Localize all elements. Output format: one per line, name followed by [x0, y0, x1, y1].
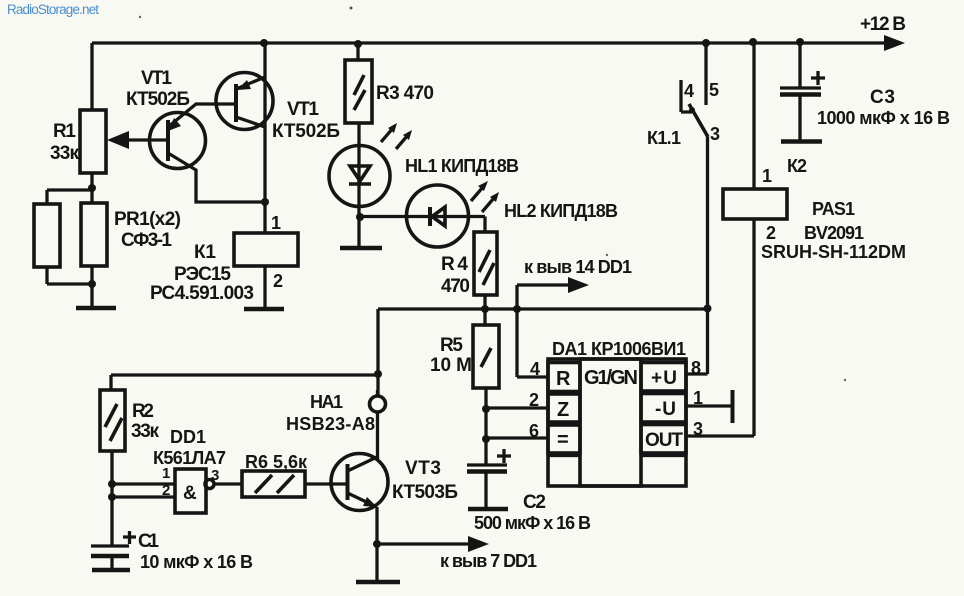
resistor R1 potentiometer body [80, 110, 106, 173]
wire mid rail corner down to HA1 [376, 309, 379, 396]
ground under C2 [468, 507, 508, 512]
DA1 -U pin box [641, 394, 686, 423]
wire DD1 output to R6 [214, 482, 242, 485]
capacitor C2 top plate [467, 463, 507, 466]
node R2 rail junction [374, 370, 382, 378]
inverter bubble DD1 output [205, 480, 214, 489]
node VT3 emitter junction [373, 540, 381, 548]
svg-text:РС4.591.003: РС4.591.003 [150, 283, 254, 304]
resistor R6 body [242, 471, 305, 497]
wire C3 to ground [798, 96, 801, 141]
transistor VT1 first, circle [150, 113, 206, 169]
svg-text:4: 4 [684, 81, 694, 101]
transistor VT3 circle [331, 454, 388, 511]
wire top rail to C3 [798, 42, 801, 87]
photoresistor PR1 right body [81, 203, 107, 266]
wire R1 wiper [126, 138, 168, 141]
light arrow HL2 a [471, 187, 483, 201]
wire R1 bottom to PR1 pair [47, 173, 92, 204]
DA1 OUT pin box [641, 425, 686, 454]
node HL1 cathode junction [356, 213, 364, 221]
wire mid rail to R5 top [483, 309, 486, 325]
svg-text:3: 3 [710, 124, 720, 144]
svg-text:1000 мкФ х 16 В: 1000 мкФ х 16 В [817, 108, 950, 128]
DA1 Z pin box [548, 394, 580, 422]
arrowhead VT3 emitter [363, 497, 377, 507]
wire +12V top rail [92, 41, 886, 44]
node top rail at K2 [749, 38, 757, 46]
svg-text:НА1: НА1 [310, 392, 343, 412]
DA1 lower dividers [548, 454, 686, 457]
wire VT3 emitter down to ground [375, 507, 378, 582]
svg-text:КТ502Б: КТ502Б [272, 121, 340, 142]
logic gate DD1 body [175, 469, 206, 513]
wire to DA1 pin6 [486, 436, 548, 439]
speck [844, 379, 846, 381]
node DD1 pin2 junction [108, 493, 116, 501]
svg-text:470: 470 [441, 276, 470, 297]
capacitor C2 bottom plate [467, 469, 507, 474]
wire to DA1 pin2 [486, 406, 548, 409]
transistor VT1 second, base bar [234, 84, 238, 122]
wire VT3 collector diagonal [348, 457, 378, 471]
svg-text:&: & [183, 483, 197, 504]
svg-text:+U: +U [651, 368, 677, 389]
svg-text:R1: R1 [53, 121, 76, 142]
speck [606, 254, 608, 256]
svg-text:1: 1 [271, 213, 281, 233]
svg-text:2: 2 [273, 271, 283, 291]
wire mid rail [378, 307, 708, 310]
svg-text:2: 2 [766, 223, 776, 243]
svg-text:4: 4 [530, 359, 540, 379]
svg-text:VT1: VT1 [141, 68, 172, 89]
wire VT1 second collector diagonal [236, 117, 265, 127]
svg-text:С2: С2 [523, 492, 546, 513]
transistor VT1 first, base bar [166, 120, 170, 161]
svg-text:33к: 33к [131, 421, 159, 442]
wire VT1 first emitter to VT1 second base [168, 104, 236, 127]
svg-text:К2: К2 [787, 156, 807, 176]
wire rail through VT1 second down to relay K1 [263, 43, 266, 233]
LED HL1 diode triangle [350, 166, 370, 181]
capacitor C3 top plate [780, 86, 821, 89]
switch blade K1.1 [689, 104, 708, 137]
svg-text:R6 5,6к: R6 5,6к [245, 452, 308, 472]
photoresistor PR1 left body [34, 204, 60, 267]
wire C1 to ground [110, 558, 113, 568]
arrowhead to pin 14 DD1 [568, 277, 589, 293]
node rail at VT1 second [260, 39, 268, 47]
wire VT3 emitter diagonal [348, 493, 378, 507]
node top rail at C3 [796, 38, 804, 46]
svg-text:VT3: VT3 [405, 458, 441, 479]
slashes inside R3 [354, 75, 365, 110]
resistor R3 body [345, 60, 372, 123]
svg-text:500 мкФ х 16 В: 500 мкФ х 16 В [474, 513, 591, 533]
wire R6 to VT3 base [305, 482, 347, 485]
svg-text:R4: R4 [441, 254, 468, 275]
svg-text:G1/GN: G1/GN [584, 367, 638, 389]
resistor R2 body [100, 390, 125, 451]
arrowhead VT1 second emitter [237, 80, 251, 90]
wire DA1 pin3 to relay K2 [686, 219, 754, 436]
ground under C3 [781, 139, 822, 144]
node mid rail right end [704, 305, 712, 313]
timer IC DA1 outer box [548, 359, 686, 486]
arrowhead VT1 first emitter [168, 118, 181, 131]
wire to DA1 pin4 [517, 309, 548, 377]
svg-text:BV2091: BV2091 [804, 223, 864, 243]
DA1 +U pin box [641, 363, 686, 392]
arrowhead R1 wiper [107, 131, 129, 149]
LED HL2 diode triangle [432, 207, 445, 226]
svg-text:2: 2 [529, 390, 539, 410]
wire C2 to ground [484, 473, 487, 509]
relay K2 coil body [723, 189, 787, 219]
svg-text:КТ503Б: КТ503Б [392, 482, 458, 503]
svg-text:РЭС15: РЭС15 [174, 264, 231, 285]
svg-text:3: 3 [211, 467, 219, 484]
svg-text:HSB23-A8: HSB23-A8 [286, 414, 375, 434]
wire R2 bottom to C1 [110, 451, 113, 546]
node DD1 pin1 junction [108, 480, 116, 488]
node collectors junction [261, 198, 269, 206]
light arrow HL1 b [396, 135, 408, 149]
arrowhead of +12V rail [884, 35, 905, 51]
light arrow HL1 a [381, 128, 393, 142]
node R1 bottom junction [88, 184, 96, 192]
node PR1 bottom junction [88, 280, 96, 288]
wire R4 bottom to mid rail [483, 295, 486, 310]
node R4 bottom on mid rail [481, 305, 489, 313]
wire DD1 input pins [112, 484, 175, 497]
svg-text:DD1: DD1 [170, 427, 206, 447]
wire K1.1 pin3 down to mid rail [706, 137, 709, 309]
svg-text:2: 2 [162, 482, 170, 499]
svg-text:1: 1 [762, 166, 772, 186]
svg-text:к выв 14 DD1: к выв 14 DD1 [524, 257, 632, 277]
wire rail to R3 top [356, 43, 359, 60]
svg-text:5: 5 [709, 80, 719, 100]
slashes inside R2 [105, 404, 122, 441]
svg-text:10 мкФ х 16 В: 10 мкФ х 16 В [140, 552, 253, 572]
transistor VT1 second, circle [216, 73, 273, 130]
resistor R4 body [474, 232, 497, 295]
arrowhead to pin 7 DD1 [468, 536, 489, 552]
svg-text:PAS1: PAS1 [812, 199, 855, 219]
node rail at R3 [354, 40, 362, 48]
speck [350, 7, 353, 10]
plus sign of C1 [123, 531, 136, 544]
relay K1 coil body [234, 233, 298, 266]
svg-text:R5: R5 [440, 335, 463, 356]
capacitor C3 bottom plate [780, 92, 821, 97]
wire switch K1.1 pin5 stub [704, 43, 707, 105]
slashes inside R4 [479, 250, 494, 285]
capacitor C1 top plate [91, 544, 129, 547]
svg-text:R2: R2 [132, 401, 154, 422]
slash inside R5 [481, 348, 491, 367]
node top rail at K1.1 [702, 39, 710, 47]
wire R2 top rail [111, 375, 378, 390]
wire switch K1.1 pin4 stub [681, 80, 692, 112]
svg-text:СФ3-1: СФ3-1 [121, 230, 172, 251]
resistor R5 body [473, 325, 499, 388]
wire PR1 bottoms join [47, 266, 92, 308]
ground under K1 [244, 307, 284, 312]
wire rail to R1 top [90, 43, 93, 110]
svg-text:PR1(x2): PR1(x2) [114, 209, 181, 230]
svg-text:DA1 КР1006ВИ1: DA1 КР1006ВИ1 [552, 339, 686, 359]
transistor VT3 base bar [346, 464, 350, 500]
LED HL2 circle [407, 185, 469, 247]
svg-text:К1.1: К1.1 [647, 128, 681, 148]
svg-text:R: R [556, 368, 571, 390]
DA1 R pin box [548, 363, 580, 392]
svg-text:RadioStorage.net: RadioStorage.net [7, 2, 99, 17]
capacitor C1 bottom plate [91, 554, 129, 559]
LED HL1 cathode bar [349, 182, 371, 186]
DA1 middle section [580, 359, 641, 486]
wire VT1 first collector down and right [168, 153, 265, 202]
svg-text:VT1: VT1 [287, 99, 319, 120]
svg-text:SRUH-SH-112DM: SRUH-SH-112DM [761, 242, 906, 262]
ground under PR1 [76, 306, 116, 311]
wire VT1 second emitter diagonal [236, 77, 265, 89]
svg-text:HL2 КИПД18В: HL2 КИПД18В [504, 201, 618, 221]
contact blob K1.1 [689, 107, 695, 113]
svg-text:К561ЛА7: К561ЛА7 [153, 448, 226, 468]
svg-text:К1: К1 [194, 242, 216, 263]
DA1 comparator pin box [548, 425, 580, 453]
svg-text:33к: 33к [50, 143, 79, 164]
LED HL2 cathode bar [428, 207, 432, 226]
wire HA1 to VT3 collector [376, 390, 379, 459]
buzzer HA1 circle [370, 396, 386, 412]
wire to pin 14 DD1 [517, 285, 570, 309]
svg-text:=: = [557, 429, 569, 451]
wire HL1 to HL2 to R4 top [360, 217, 485, 233]
svg-text:6: 6 [529, 421, 539, 441]
wire K1 pin2 to ground [263, 266, 266, 309]
svg-text:Z: Z [557, 399, 569, 421]
terminal bar at DA1 pin1 [731, 390, 735, 423]
wire R5 bottom to C2 [484, 388, 487, 464]
svg-text:OUT: OUT [645, 430, 683, 451]
svg-text:+12 В: +12 В [860, 14, 906, 35]
ground under HL1 [340, 246, 382, 251]
svg-text:КТ502Б: КТ502Б [126, 89, 190, 110]
ground under C1 [92, 568, 130, 573]
ground under VT3 [356, 580, 400, 585]
svg-text:С3: С3 [870, 87, 895, 108]
slashes inside R6 [255, 475, 294, 493]
light arrow HL2 b [482, 198, 494, 212]
LED HL1 circle [329, 146, 390, 207]
wire DA1 pin1 to common terminal [686, 404, 732, 407]
svg-text:HL1 КИПД18В: HL1 КИПД18В [405, 156, 519, 176]
node DA1 pin6 junction [482, 435, 490, 443]
svg-text:-U: -U [655, 399, 676, 420]
plus sign of C3 [811, 71, 825, 85]
wire K2 pin1 to top rail [752, 42, 755, 189]
svg-text:R3 470: R3 470 [376, 83, 434, 104]
wire DA1 pin8 up to mid rail [686, 309, 708, 374]
svg-text:С1: С1 [138, 531, 159, 552]
svg-text:к выв 7 DD1: к выв 7 DD1 [440, 551, 537, 571]
svg-text:10 М: 10 М [430, 355, 472, 376]
node DA1 pin2 junction [482, 405, 490, 413]
wire to pin 7 DD1 [377, 542, 470, 545]
wire R3 through HL1 to ground [357, 123, 360, 248]
node DA1 pin4 junction on mid rail [513, 305, 521, 313]
plus sign of C2 [497, 449, 511, 463]
speck [139, 16, 141, 18]
